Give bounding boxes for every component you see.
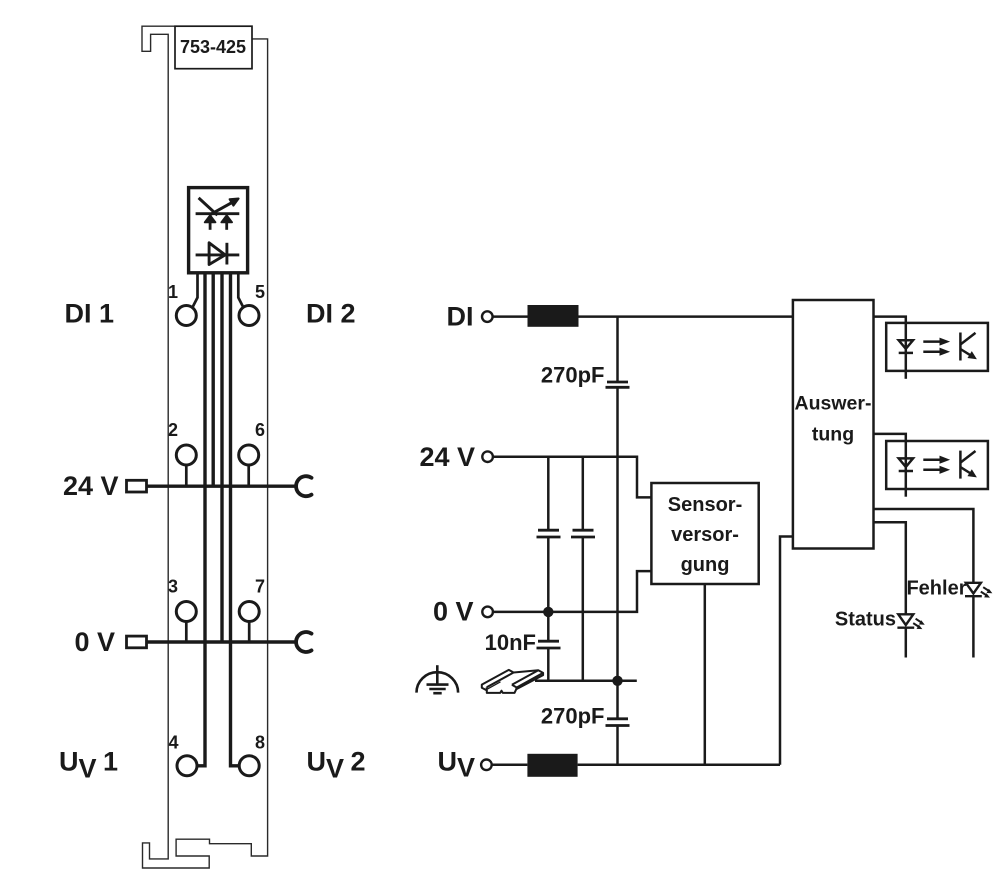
24V rail wire — [147, 485, 297, 488]
capacitor C1 wire lower — [547, 537, 550, 612]
svg-text:7: 7 — [255, 577, 265, 597]
svg-text:3: 3 — [168, 577, 178, 597]
terminal circle 24V — [482, 451, 493, 462]
capacitor C1 wire upper — [547, 457, 550, 530]
junction dot chassis — [612, 676, 622, 686]
svg-text:0 V: 0 V — [74, 627, 115, 657]
wire UV to filter — [491, 764, 527, 767]
svg-text:270pF: 270pF — [541, 704, 605, 729]
clamp circle 3 — [176, 602, 196, 622]
filter choke UV (black) — [527, 754, 577, 777]
svg-text:8: 8 — [255, 733, 265, 753]
svg-text:DI 2: DI 2 — [306, 298, 356, 328]
svg-text:DI: DI — [447, 302, 474, 332]
sensor icon box — [189, 188, 248, 273]
pin 1 lead — [193, 273, 198, 307]
optocoupler 2 internals — [899, 441, 976, 497]
wire DI to Auswertung — [579, 315, 793, 318]
ground symbol — [417, 665, 459, 693]
LED Status — [897, 614, 924, 628]
wire pin4 bus to 0V rail — [220, 273, 223, 642]
wire Auswertung to optocoupler 1 — [874, 317, 906, 323]
wire Status LED lower — [905, 628, 908, 658]
wire 270pF top vertical upper — [616, 317, 619, 382]
capacitor 10nF wire lower to chassis — [547, 648, 550, 680]
terminal circle DI — [482, 311, 493, 322]
svg-text:0 V: 0 V — [433, 597, 474, 627]
wire UV rail — [578, 764, 780, 767]
terminal circle UV — [481, 760, 492, 771]
junction dot 0V / 10nF — [543, 607, 553, 617]
module outline 753-425 housing — [142, 26, 268, 868]
clamp circle 6 — [239, 445, 259, 465]
svg-text:Status: Status — [835, 609, 896, 631]
clamp circle 8 — [239, 756, 259, 776]
Auswertung box — [793, 300, 874, 549]
svg-text:6: 6 — [255, 420, 265, 440]
capacitor C1 plates — [537, 530, 561, 537]
optocoupler box 1 — [886, 323, 988, 371]
svg-text:2: 2 — [168, 420, 178, 440]
optocoupler 1 internals — [899, 323, 976, 379]
capacitor 10nF plates — [537, 641, 561, 648]
label box 753-425 — [175, 26, 252, 68]
svg-text:270pF: 270pF — [541, 363, 605, 388]
clamp circle 2 — [176, 445, 196, 465]
wire pin5 bus to clamp 8 — [231, 273, 239, 766]
24V rail feed-through symbol left — [127, 480, 147, 492]
wire 270pF bottom vertical lower to UV rail — [616, 726, 619, 765]
pin 5 lead — [238, 273, 243, 307]
wire Sensorversorgung to UV rail — [704, 584, 707, 765]
svg-text:10nF: 10nF — [485, 630, 536, 655]
wire pin3 bus to 24V rail — [211, 273, 214, 486]
capacitor C2 plates — [571, 530, 595, 537]
wire 270pF top vertical lower to chassis — [616, 388, 619, 681]
LED Fehler — [965, 583, 992, 597]
wire pin2 bus to clamp 4 — [197, 273, 205, 766]
wire Auswertung to UV rail — [780, 537, 793, 765]
svg-text:1: 1 — [168, 282, 178, 302]
optocoupler box 2 — [886, 441, 988, 489]
clamp circle 5 — [239, 306, 259, 326]
svg-text:DI 1: DI 1 — [64, 298, 114, 328]
capacitor C2 wire upper — [582, 457, 585, 530]
capacitor 270pF bottom plates — [606, 719, 630, 726]
svg-text:24 V: 24 V — [419, 442, 475, 472]
sensor symbol: two up arrows — [205, 215, 232, 229]
stem clamp3 to 0V rail — [185, 622, 188, 643]
capacitor 270pF top — [606, 382, 630, 387]
wire Auswertung to Status LED — [874, 522, 906, 614]
stem clamp6 to 24V rail — [247, 465, 250, 486]
wire Fehler LED lower — [972, 596, 975, 657]
0V rail feed-through symbol left — [127, 636, 147, 648]
svg-text:Auswer-: Auswer- — [795, 393, 872, 415]
stem clamp2 to 24V rail — [185, 465, 188, 486]
wire 270pF bottom vertical upper — [616, 681, 619, 719]
terminal circle 0V — [482, 607, 493, 618]
chassis rail wire — [535, 680, 637, 683]
svg-text:tung: tung — [812, 424, 854, 446]
Sensorversorgung box — [651, 483, 758, 584]
svg-text:Fehler: Fehler — [906, 578, 966, 600]
svg-text:24 V: 24 V — [63, 471, 119, 501]
wire 0V rail — [493, 571, 652, 612]
capacitor 10nF wire upper — [547, 612, 550, 641]
wire Auswertung to optocoupler 2 — [874, 434, 906, 441]
wire DI to filter — [492, 315, 527, 318]
wire Auswertung to Fehler LED — [874, 509, 974, 582]
clamp circle 4 — [177, 756, 197, 776]
24V rail jumper contact arc — [296, 476, 311, 496]
filter choke DI (black) — [528, 305, 579, 327]
svg-text:5: 5 — [255, 282, 265, 302]
svg-text:4: 4 — [168, 733, 178, 753]
clamp circle 7 — [239, 602, 259, 622]
sensor symbol top: line with crossing arrow — [196, 198, 240, 215]
svg-text:753-425: 753-425 — [180, 37, 246, 57]
0V rail jumper contact arc — [296, 632, 311, 652]
svg-text:gung: gung — [681, 554, 730, 576]
DIN rail icon — [482, 670, 543, 693]
capacitor C2 wire lower to chassis — [582, 537, 585, 680]
0V rail wire — [147, 640, 297, 643]
svg-text:versor-: versor- — [671, 524, 739, 546]
svg-text:Sensor-: Sensor- — [668, 494, 742, 516]
clamp circle 1 — [176, 306, 196, 326]
wire 24V rail — [493, 457, 652, 498]
diode symbol in icon box — [196, 243, 240, 265]
stem clamp7 to 0V rail — [248, 622, 251, 643]
